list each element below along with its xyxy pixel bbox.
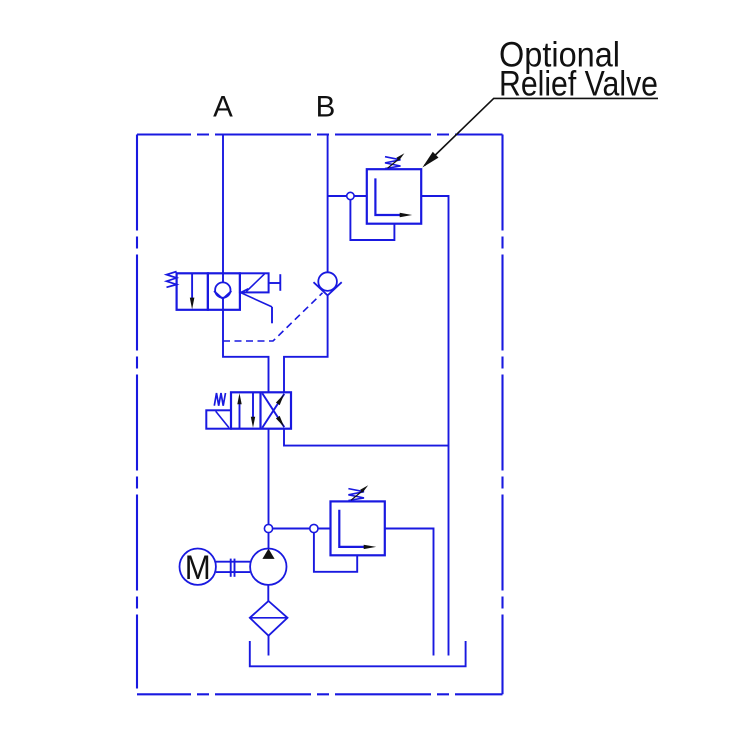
svg-text:A: A <box>213 91 233 124</box>
svg-text:M: M <box>185 549 211 587</box>
svg-text:Relief Valve: Relief Valve <box>499 65 658 104</box>
svg-text:B: B <box>316 91 336 124</box>
